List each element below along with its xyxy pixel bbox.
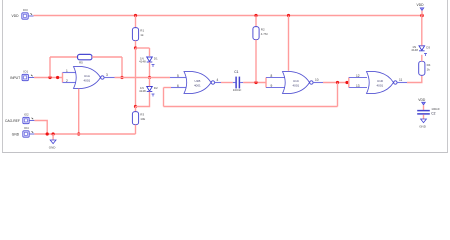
pin 1 stub bbox=[63, 72, 76, 74]
resistor R5 (feedback, horizontal) bbox=[78, 54, 93, 64]
page border frame bbox=[3, 0, 448, 153]
resistor R2 bbox=[253, 27, 268, 40]
resistor R3 bbox=[132, 112, 145, 125]
node junction input segment bbox=[56, 76, 59, 79]
wire: feedback right vertical bbox=[121, 57, 123, 78]
NOR gate U1D bbox=[367, 72, 398, 94]
pin 11 output stub bbox=[397, 82, 407, 84]
svg-text:8: 8 bbox=[271, 74, 273, 78]
svg-text:4001: 4001 bbox=[194, 84, 201, 88]
wire: R1 bottom lead to junction bbox=[135, 41, 137, 48]
wire: row1 to rail corner bbox=[34, 121, 47, 135]
wire: bottom ground rail bbox=[34, 133, 135, 135]
node junction row1 corner bbox=[46, 132, 49, 135]
svg-text:GND: GND bbox=[49, 146, 57, 150]
pin 4 output stub bbox=[215, 82, 221, 84]
pin 9 stub bbox=[266, 87, 285, 89]
svg-text:VDD: VDD bbox=[417, 3, 425, 7]
wire: U1A output net bbox=[115, 77, 171, 79]
pin 13 stub bbox=[349, 87, 367, 89]
junction on rail at R1 bbox=[134, 14, 137, 17]
wire: R4 top to D3 bbox=[421, 55, 423, 62]
wire: gate1 input bracket bbox=[62, 73, 64, 83]
svg-text:D3: D3 bbox=[426, 45, 430, 49]
svg-text:CAO-REF: CAO-REF bbox=[5, 119, 20, 123]
wire: D1 bottom lead bbox=[149, 62, 151, 77]
port GND (bottom-left row 2) bbox=[12, 126, 35, 137]
svg-text:GND: GND bbox=[12, 132, 20, 136]
svg-text:IO2: IO2 bbox=[24, 113, 29, 117]
wire: D3 top to VDD rail corner bbox=[421, 16, 423, 46]
NOR gate U1B bbox=[184, 72, 215, 94]
wire: U1B output to C1 bbox=[221, 82, 233, 84]
node junction U1D input bbox=[345, 81, 348, 84]
svg-text:GND: GND bbox=[419, 125, 427, 129]
svg-text:INPUT: INPUT bbox=[10, 76, 20, 80]
svg-text:D1: D1 bbox=[154, 57, 158, 61]
node junction at R1 bottom bbox=[134, 46, 137, 49]
wire: U1B bottom input horizontal bbox=[164, 87, 172, 89]
svg-text:3: 3 bbox=[106, 73, 108, 77]
pin 8 stub bbox=[266, 77, 285, 79]
svg-text:C2: C2 bbox=[431, 112, 435, 116]
capacitor C1 bbox=[233, 70, 243, 92]
svg-text:1k: 1k bbox=[140, 33, 144, 37]
svg-text:IO1: IO1 bbox=[23, 70, 28, 74]
wire: U1D input bracket bbox=[348, 78, 350, 88]
wire: D2 bottom lead and jog left bbox=[136, 92, 150, 107]
diode D3 bbox=[411, 45, 430, 56]
svg-text:R4: R4 bbox=[427, 63, 431, 67]
resistor R1 bbox=[132, 28, 144, 41]
power symbol VDD (top-right) bbox=[417, 3, 425, 16]
node junction feedback/input bbox=[48, 76, 51, 79]
wire: INPUT to gate1 input node bbox=[34, 77, 63, 79]
wire: feedback top right segment bbox=[92, 56, 122, 58]
junction on rail at U1C power stub bbox=[287, 14, 290, 17]
svg-text:10: 10 bbox=[315, 78, 319, 82]
svg-text:6: 6 bbox=[177, 84, 179, 88]
wire: R3 top lead bbox=[135, 107, 137, 112]
svg-text:4.7M: 4.7M bbox=[261, 32, 268, 36]
svg-text:4001: 4001 bbox=[377, 84, 384, 88]
wire: R3 bottom lead to ground rail bbox=[135, 125, 137, 134]
wire: D2 top lead bbox=[149, 78, 151, 87]
wire: U1B bottom input feedback vertical bbox=[163, 88, 165, 107]
port INPUT bbox=[10, 70, 34, 81]
svg-text:U1D: U1D bbox=[377, 79, 384, 83]
wire: U1A ground pin stub bbox=[78, 89, 80, 134]
pin 2 stub bbox=[63, 82, 76, 84]
wire: feedback top left segment bbox=[50, 56, 78, 58]
wire: U1C input bracket bbox=[265, 78, 267, 88]
wire: D1 top lead bbox=[149, 48, 151, 56]
power symbol VDD (decoupling cap) bbox=[418, 98, 426, 110]
wire: C1 to U1C input node bbox=[243, 82, 266, 84]
svg-text:R3: R3 bbox=[140, 112, 144, 116]
svg-text:1k: 1k bbox=[427, 67, 431, 71]
svg-text:IO3: IO3 bbox=[23, 8, 28, 12]
wire: feedback right vertical bbox=[337, 83, 339, 107]
svg-text:IO4: IO4 bbox=[24, 126, 29, 130]
svg-text:100nF: 100nF bbox=[233, 88, 242, 92]
diode D1 bbox=[139, 57, 158, 68]
wire: jog right to diode column bbox=[136, 47, 150, 49]
node junction gnd stub/rail bbox=[77, 132, 80, 135]
junction on rail at R2 bbox=[254, 14, 257, 17]
port VDD (top-left) bbox=[12, 8, 34, 19]
ground symbol (decoupling) bbox=[419, 119, 427, 129]
svg-text:R2: R2 bbox=[261, 27, 265, 31]
node junction at D2 bottom / R3 top bbox=[134, 105, 137, 108]
pin 12 stub bbox=[349, 77, 367, 79]
svg-text:5: 5 bbox=[177, 74, 179, 78]
wire: top VDD rail bbox=[34, 15, 423, 17]
node junction D1/output net bbox=[148, 76, 151, 79]
wire: U1D output to right column bbox=[407, 75, 422, 82]
wire: middle column R1 junction down to R3 bbox=[135, 48, 137, 107]
pin 10 output stub bbox=[313, 82, 323, 84]
svg-text:100nF: 100nF bbox=[431, 107, 440, 111]
ground symbol bbox=[49, 134, 57, 150]
NOR gate U1C bbox=[283, 72, 314, 94]
svg-text:4148: 4148 bbox=[139, 89, 146, 93]
wire: U1C output net bbox=[323, 82, 349, 84]
svg-text:U1B: U1B bbox=[195, 79, 201, 83]
wire: R2 top lead bbox=[255, 16, 257, 27]
svg-text:U1C: U1C bbox=[293, 79, 300, 83]
pin 6 stub bbox=[171, 87, 186, 89]
node junction ground symbol bbox=[52, 132, 55, 135]
svg-text:R1: R1 bbox=[140, 28, 144, 32]
svg-text:4148: 4148 bbox=[411, 48, 418, 52]
pin 5 stub bbox=[170, 77, 186, 79]
svg-text:D2: D2 bbox=[154, 86, 158, 90]
wire: R1 top lead bbox=[135, 16, 137, 28]
svg-text:VDD: VDD bbox=[12, 14, 20, 18]
svg-text:R5: R5 bbox=[79, 61, 83, 65]
svg-text:4148: 4148 bbox=[139, 60, 146, 64]
NOR gate U1A bbox=[74, 67, 105, 89]
svg-text:4001: 4001 bbox=[84, 79, 91, 83]
svg-text:4001: 4001 bbox=[293, 84, 300, 88]
resistor R4 (right column) bbox=[419, 61, 431, 75]
svg-text:4: 4 bbox=[217, 78, 219, 82]
node junction R2 bottom bbox=[254, 81, 257, 84]
wire: long feedback bottom horizontal bbox=[164, 106, 338, 108]
port CAO-REF (bottom-left row 1) bbox=[5, 113, 34, 124]
svg-text:C1: C1 bbox=[234, 70, 238, 74]
svg-text:VDD: VDD bbox=[418, 98, 426, 102]
svg-text:2: 2 bbox=[66, 79, 68, 83]
node junction feedback/output bbox=[120, 76, 123, 79]
node junction feedback takeoff bbox=[336, 81, 339, 84]
svg-text:12: 12 bbox=[356, 74, 360, 78]
pin 3 output stub bbox=[104, 77, 114, 79]
wire: R2 bottom lead down to input net bbox=[255, 40, 257, 83]
diode D2 bbox=[139, 86, 158, 97]
wire: feedback left vertical bbox=[49, 57, 51, 78]
svg-text:13: 13 bbox=[356, 84, 360, 88]
svg-text:1: 1 bbox=[66, 69, 68, 73]
svg-text:U1A: U1A bbox=[84, 74, 90, 78]
capacitor C2 (decoupling) bbox=[417, 107, 440, 119]
svg-text:11: 11 bbox=[399, 78, 403, 82]
svg-text:9: 9 bbox=[271, 84, 273, 88]
junction top-right corner bbox=[420, 14, 424, 18]
svg-text:10k: 10k bbox=[140, 117, 145, 121]
wire: U1C power stub from rail bbox=[288, 16, 290, 71]
